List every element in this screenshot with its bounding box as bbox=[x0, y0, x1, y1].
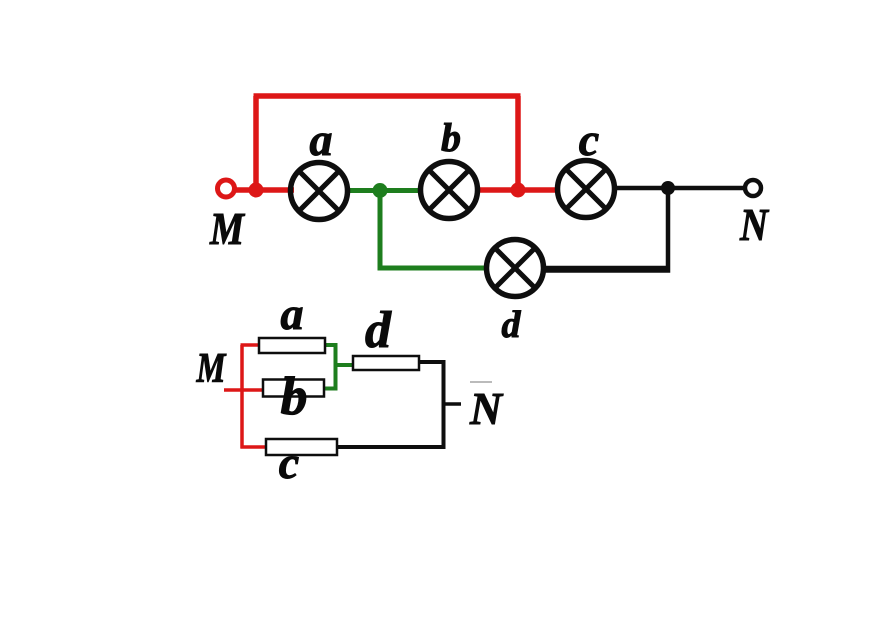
terminal N bbox=[745, 180, 761, 196]
wire red M stub bbox=[224, 388, 264, 392]
resistor box d bbox=[353, 356, 419, 370]
lamp d bbox=[487, 240, 544, 297]
wire red stub to box c bbox=[241, 445, 268, 449]
wire green branch to box d bbox=[336, 363, 355, 367]
resistor box b bbox=[263, 380, 324, 397]
wire red M to lamp a bbox=[234, 187, 294, 193]
wire green lamp a to lamp b bbox=[347, 188, 422, 193]
wire black riser down bbox=[542, 188, 668, 271]
svg-text:c: c bbox=[279, 437, 299, 488]
wire green horizontal to lamp d bbox=[378, 266, 490, 271]
wire black from box d to N branch bbox=[418, 362, 444, 447]
svg-text:N: N bbox=[469, 383, 504, 434]
svg-text:b: b bbox=[441, 115, 461, 160]
svg-text:d: d bbox=[502, 304, 522, 346]
resistor box a bbox=[259, 338, 325, 353]
svg-text:M: M bbox=[209, 203, 246, 254]
wire red lamp b to lamp c bbox=[476, 187, 560, 193]
svg-text:b: b bbox=[281, 366, 308, 426]
wire red stub to box a bbox=[241, 343, 261, 347]
wire black bottom from box c bbox=[336, 445, 446, 449]
node junction black bbox=[661, 181, 675, 195]
wire red riser right bbox=[515, 96, 521, 191]
lamp c bbox=[558, 161, 615, 218]
wire red top horizontal bbox=[254, 93, 521, 99]
node junction red left bbox=[249, 183, 264, 198]
svg-text:a: a bbox=[310, 114, 333, 165]
svg-text:d: d bbox=[365, 302, 392, 359]
wire green from box a bbox=[323, 345, 336, 389]
wire black N stub bbox=[444, 402, 462, 406]
svg-text:c: c bbox=[579, 114, 599, 165]
node junction green bbox=[373, 183, 388, 198]
lamp a bbox=[291, 163, 348, 220]
wire red vertical bus bbox=[240, 345, 244, 449]
overline above N bbox=[470, 381, 492, 383]
wire red riser left bbox=[253, 96, 259, 190]
terminal M bbox=[218, 180, 235, 197]
node junction red right bbox=[511, 183, 526, 198]
lamp b bbox=[421, 162, 478, 219]
svg-text:N: N bbox=[739, 199, 769, 250]
wire green riser down bbox=[378, 191, 383, 269]
svg-text:a: a bbox=[281, 288, 304, 339]
resistor box c bbox=[266, 439, 337, 455]
svg-text:M: M bbox=[196, 346, 227, 392]
wire black lamp c to N bbox=[613, 186, 745, 191]
